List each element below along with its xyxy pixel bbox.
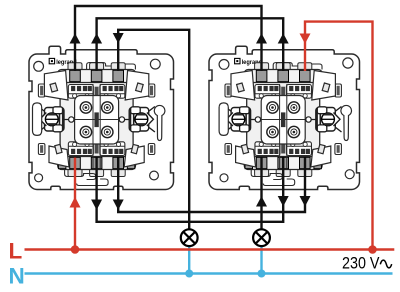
- svg-text:230 V: 230 V: [342, 254, 380, 273]
- svg-text:N: N: [9, 264, 25, 287]
- svg-text:L: L: [9, 238, 23, 263]
